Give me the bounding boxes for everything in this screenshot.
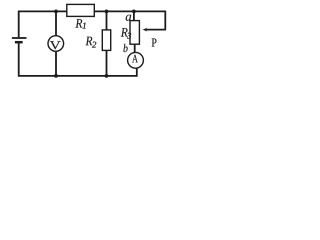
battery short plate xyxy=(15,41,23,44)
node dot R2 bottom xyxy=(105,74,109,78)
label R2 letter R xyxy=(86,37,93,46)
battery long plate xyxy=(12,37,27,39)
resistor R3 box xyxy=(130,21,139,45)
label R1 letter R xyxy=(75,19,82,28)
node dot R3 top xyxy=(132,10,136,14)
label b xyxy=(123,44,127,52)
label R3 subscript 3 xyxy=(127,33,131,39)
wire R3 branch from top wire xyxy=(133,11,135,20)
wiper arrowhead xyxy=(143,28,148,32)
wire top left segment xyxy=(18,10,67,12)
resistor R1 box xyxy=(67,4,95,16)
node dot voltmeter top xyxy=(54,10,58,14)
resistor R2 box xyxy=(102,30,110,51)
wire R2 branch upper xyxy=(106,11,108,30)
label R3 letter R xyxy=(121,28,128,37)
wire wiper horizontal xyxy=(146,29,166,31)
label R1 subscript 1 xyxy=(83,23,86,29)
label a xyxy=(126,15,131,21)
wire right edge (top corner down to wiper line) xyxy=(164,11,166,30)
ammeter A1 circle xyxy=(128,52,144,68)
wire left edge upper xyxy=(18,11,20,38)
voltmeter V1 circle xyxy=(48,36,64,52)
wire R2 branch lower xyxy=(106,50,108,76)
wire voltmeter branch upper xyxy=(55,11,57,35)
wire bottom xyxy=(18,75,137,77)
node dot voltmeter bottom xyxy=(54,74,58,78)
label R2 subscript 2 xyxy=(92,42,96,48)
wire R3 to ammeter xyxy=(134,44,136,53)
node dot R2 top xyxy=(105,10,109,14)
wire left edge lower xyxy=(18,43,20,77)
label P xyxy=(152,39,157,47)
wire voltmeter branch lower xyxy=(55,51,57,76)
voltmeter letter V xyxy=(50,41,61,49)
ammeter letter A xyxy=(132,55,138,63)
wire ammeter to bottom xyxy=(136,68,138,77)
wire top middle segment xyxy=(94,10,165,12)
